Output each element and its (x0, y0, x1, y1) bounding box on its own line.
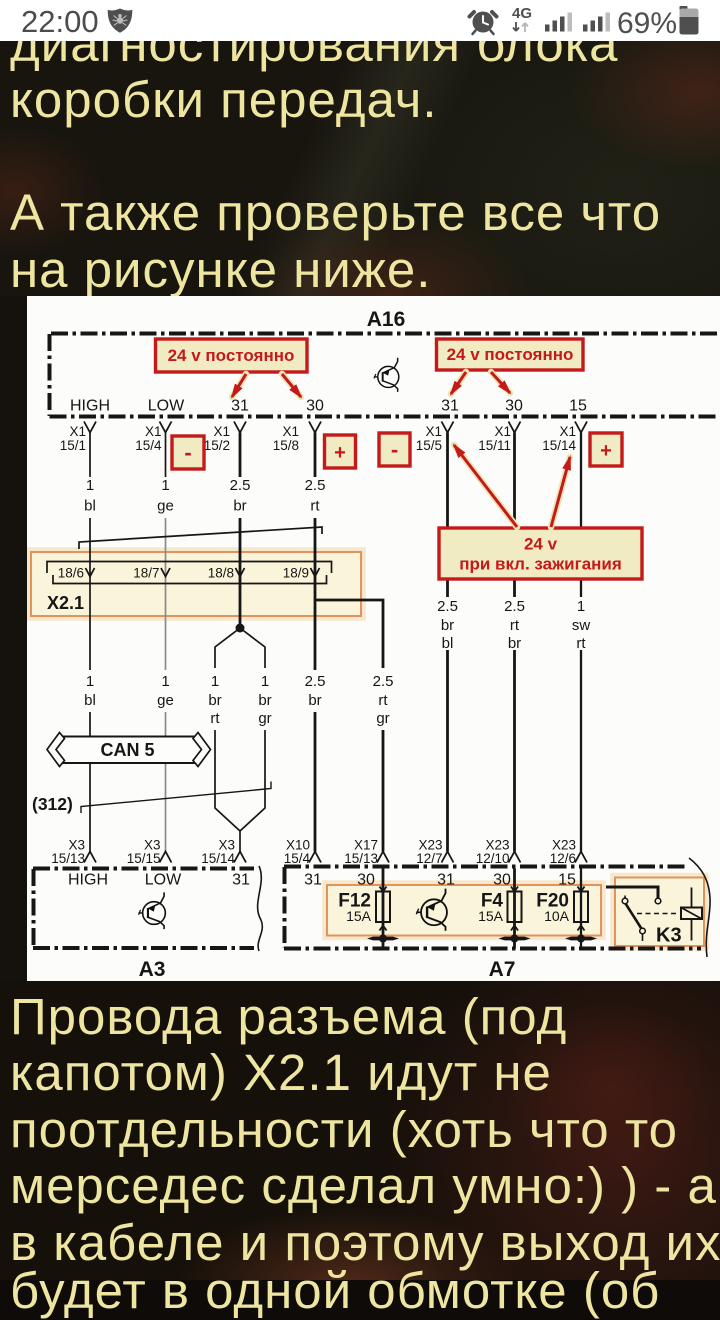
svg-text:CAN 5: CAN 5 (100, 740, 154, 760)
X2.1 pin 18/9 (283, 566, 320, 581)
svg-text:31: 31 (437, 872, 455, 889)
svg-text:15/14: 15/14 (201, 851, 235, 866)
polarity box minus 2 (379, 433, 410, 466)
top dark photo background (0, 41, 720, 296)
svg-text:+: + (600, 440, 612, 462)
svg-text:br: br (233, 498, 246, 515)
circuit schematic (Mercedes wiring diagram) (27, 296, 720, 981)
svg-text:br: br (208, 692, 221, 709)
svg-text:K3: K3 (656, 925, 682, 947)
svg-text:bl: bl (442, 635, 454, 652)
red arrow B1 (451, 372, 466, 394)
svg-text:X1: X1 (69, 424, 86, 439)
svg-text:1: 1 (161, 477, 169, 494)
X2.1 inner bracket (47, 562, 332, 584)
signal bars icon 1 (545, 13, 572, 32)
control unit A16 border (50, 334, 720, 417)
svg-text:31: 31 (441, 398, 459, 415)
bottom connector chevrons (84, 852, 587, 863)
svg-text:ge: ge (157, 692, 174, 709)
twisted pair br/gr (240, 628, 265, 831)
relay K3 internals (606, 887, 702, 947)
svg-text:24 v постоянно: 24 v постоянно (168, 346, 295, 365)
wire gauge labels right (437, 598, 590, 652)
svg-text:LOW: LOW (145, 872, 182, 889)
svg-text:10A: 10A (544, 908, 570, 924)
svg-text:A16: A16 (367, 308, 406, 331)
junction node (solder point) (236, 624, 245, 633)
svg-text:-: - (184, 440, 191, 465)
svg-text:X1: X1 (145, 424, 162, 439)
wire gauge labels row 1 (84, 477, 325, 515)
svg-text:sw: sw (572, 617, 591, 634)
status bar (0, 0, 720, 41)
svg-text:+: + (334, 442, 346, 464)
svg-text:при вкл. зажигания: при вкл. зажигания (459, 555, 622, 574)
svg-text:1: 1 (161, 673, 169, 690)
red arrow A2 (282, 374, 301, 397)
svg-text:15/5: 15/5 (416, 438, 442, 453)
svg-text:1: 1 (86, 477, 94, 494)
svg-text:rt: rt (378, 692, 388, 709)
svg-text:LOW: LOW (148, 398, 185, 415)
relay K3 box (613, 875, 707, 949)
red note box 24v constant (right) (437, 339, 584, 370)
svg-text:X2.1: X2.1 (47, 593, 84, 613)
svg-text:15/4: 15/4 (135, 438, 162, 453)
svg-text:31: 31 (231, 398, 249, 415)
connector/ECU A3 border (33, 866, 262, 951)
svg-text:15/13: 15/13 (51, 851, 85, 866)
svg-text:gr: gr (376, 710, 389, 727)
wire 30 rt/br (2.5) right (513, 433, 516, 852)
svg-text:gr: gr (258, 710, 271, 727)
svg-text:HIGH: HIGH (70, 398, 110, 415)
svg-text:1: 1 (86, 673, 94, 690)
connector X2.1 box (29, 550, 364, 619)
svg-text:18/7: 18/7 (133, 566, 159, 581)
svg-text:15/11: 15/11 (478, 438, 511, 453)
twisted pair br/rt (215, 628, 240, 831)
svg-text:12/10: 12/10 (476, 851, 510, 866)
X2.1 pin 18/6 (58, 566, 95, 581)
fuse F4 15A (478, 869, 530, 949)
svg-text:15/4: 15/4 (284, 851, 311, 866)
svg-text:ge: ge (157, 498, 174, 515)
svg-text:br: br (508, 635, 521, 652)
svg-text:15/1: 15/1 (60, 438, 86, 453)
svg-text:15: 15 (569, 398, 587, 415)
4G network indicator (512, 5, 532, 32)
CAN 5 banner (47, 733, 211, 767)
svg-text:31: 31 (232, 872, 250, 889)
wire 31 br (2.5) (239, 433, 242, 629)
svg-text:2.5: 2.5 (305, 673, 326, 690)
svg-text:15/8: 15/8 (273, 438, 299, 453)
transistor symbol in A3 (138, 892, 165, 929)
svg-text:30: 30 (493, 872, 511, 889)
wire 30 rt (2.5) (314, 433, 317, 852)
X2.1 pin 18/7 (133, 566, 170, 581)
bottom yellow caption text (10, 989, 720, 1272)
svg-text:2.5: 2.5 (373, 673, 394, 690)
reference line to twisted pair (81, 782, 271, 814)
svg-text:12/6: 12/6 (550, 851, 576, 866)
polarity box minus 1 (172, 436, 204, 469)
polarity box plus 2 (590, 433, 622, 466)
svg-text:bl: bl (84, 498, 96, 515)
red note box 24v ignition (439, 528, 642, 579)
polarity box plus 1 (325, 435, 356, 468)
svg-text:12/7: 12/7 (416, 851, 442, 866)
svg-text:rt: rt (576, 635, 586, 652)
svg-text:br: br (441, 617, 454, 634)
pin X1 labels (60, 424, 577, 453)
A7 pin labels (304, 872, 576, 889)
svg-text:1: 1 (211, 673, 219, 690)
A3 pin labels (68, 872, 250, 889)
transistor symbol in A16 (374, 358, 399, 392)
wire HIGH bl (89, 433, 91, 852)
white paper background (27, 296, 720, 981)
svg-text:69%: 69% (617, 7, 677, 40)
battery icon (680, 6, 699, 35)
svg-text:30: 30 (306, 398, 324, 415)
svg-text:(312): (312) (32, 794, 73, 814)
svg-text:15A: 15A (478, 908, 504, 924)
svg-text:15/13: 15/13 (344, 851, 378, 866)
top yellow caption text (10, 16, 661, 299)
svg-text:30: 30 (357, 872, 375, 889)
svg-text:1: 1 (577, 598, 585, 615)
svg-text:18/9: 18/9 (283, 566, 309, 581)
svg-text:4G: 4G (512, 5, 532, 22)
svg-text:2.5: 2.5 (504, 598, 525, 615)
svg-text:X1: X1 (559, 424, 576, 439)
alarm clock icon (470, 12, 497, 35)
A16 pin connector chevrons (84, 422, 587, 433)
branch wire rt/gr to X17 (315, 600, 383, 852)
svg-text:30: 30 (505, 398, 523, 415)
wire 15 sw/rt (580, 433, 582, 852)
svg-text:24 v: 24 v (524, 535, 558, 554)
fuse strip box (325, 883, 604, 939)
svg-text:bl: bl (84, 692, 96, 709)
svg-text:-: - (391, 437, 398, 462)
X2.1 pin 18/8 (208, 566, 245, 581)
red arrow A1 (232, 374, 246, 397)
wire 31 br/bl (2.5) right (446, 433, 449, 852)
svg-text:br: br (308, 692, 321, 709)
svg-text:X1: X1 (494, 424, 511, 439)
transistor symbol in A7 (416, 889, 447, 931)
cable sheath line (79, 527, 322, 549)
svg-text:HIGH: HIGH (68, 872, 108, 889)
svg-text:rt: rt (510, 617, 520, 634)
svg-text:15/2: 15/2 (204, 438, 230, 453)
svg-text:18/8: 18/8 (208, 566, 234, 581)
red arrow C1 (454, 445, 517, 527)
svg-text:2.5: 2.5 (305, 477, 326, 494)
wire gauge labels row 2 (84, 673, 393, 727)
svg-text:rt: rt (310, 498, 320, 515)
svg-text:15A: 15A (346, 908, 372, 924)
wire stub to X3 15/14 (239, 831, 241, 852)
red arrow C2 (551, 457, 570, 527)
fuse/relay module A7 border (284, 858, 710, 957)
svg-text:2.5: 2.5 (437, 598, 458, 615)
svg-text:X1: X1 (213, 424, 230, 439)
svg-text:2.5: 2.5 (230, 477, 251, 494)
red arrow B2 (491, 372, 510, 393)
fuse F20 10A (536, 869, 597, 949)
svg-text:15: 15 (558, 872, 576, 889)
svg-text:31: 31 (304, 872, 322, 889)
Dr.Web shield icon (108, 9, 133, 33)
wire LOW ge (165, 433, 167, 852)
svg-text:24 v постоянно: 24 v постоянно (447, 345, 574, 364)
bottom connector labels (51, 838, 576, 867)
svg-text:A7: A7 (489, 958, 516, 981)
A16 pin labels (70, 398, 587, 415)
svg-text:br: br (258, 692, 271, 709)
svg-text:X1: X1 (425, 424, 442, 439)
fuse F12 15A (338, 869, 399, 949)
svg-text:rt: rt (210, 710, 220, 727)
signal bars icon 2 (583, 13, 610, 32)
svg-text:15/15: 15/15 (127, 851, 161, 866)
svg-text:1: 1 (261, 673, 269, 690)
svg-text:15/14: 15/14 (542, 438, 576, 453)
red note box 24v constant (left) (156, 339, 308, 372)
svg-text:A3: A3 (139, 958, 166, 981)
svg-text:X1: X1 (282, 424, 299, 439)
svg-text:18/6: 18/6 (58, 566, 84, 581)
